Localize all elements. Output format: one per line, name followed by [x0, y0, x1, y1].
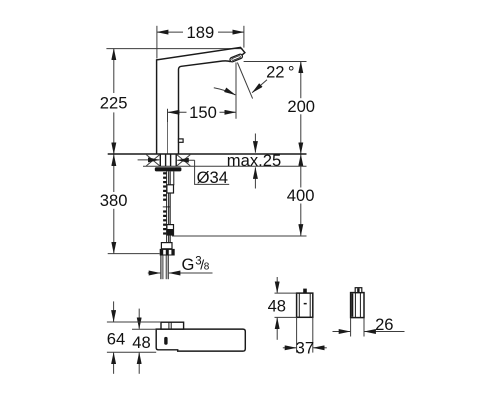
sensor window slot [164, 337, 167, 345]
countertop deck line [108, 153, 307, 155]
svg-text:26: 26 [375, 315, 393, 334]
svg-text:189: 189 [187, 23, 215, 42]
extension lines front view [107, 321, 161, 323]
water stream line 22deg [237, 63, 252, 99]
shank mid break tick [163, 206, 171, 208]
dimension 200 line [300, 62, 302, 99]
dimension G3/8 arrows [148, 272, 160, 274]
clamp piece lower [167, 225, 174, 235]
faucet spout underside [179, 61, 231, 154]
shank body lines [166, 171, 168, 242]
deck hatch right X [177, 155, 191, 166]
svg-text:48: 48 [268, 297, 286, 316]
supply hose [160, 256, 162, 280]
box nub [303, 289, 307, 294]
dimension 64 [113, 301, 115, 321]
svg-text:22 °: 22 ° [266, 63, 294, 82]
shank end fitting [161, 243, 172, 249]
svg-text:max.25: max.25 [227, 151, 281, 170]
dimension 189 line [157, 31, 183, 33]
svg-text:200: 200 [287, 97, 315, 116]
svg-text:37: 37 [296, 338, 314, 357]
dimension 400 line [300, 155, 302, 188]
deck hatch left X [146, 155, 159, 166]
svg-text:380: 380 [100, 191, 128, 210]
angle arc with arrow [214, 88, 236, 95]
dimension 37 [296, 317, 298, 352]
dimension 225 line [113, 49, 115, 93]
svg-text:G: G [182, 255, 195, 274]
centerline of column [167, 122, 169, 154]
dimension diam34 arrows [138, 159, 160, 161]
dimension 150 line [168, 111, 187, 113]
extension line 189 right [243, 26, 245, 48]
front view body [156, 329, 245, 351]
control box front view [297, 293, 313, 317]
extension line 400 bottom [172, 235, 307, 237]
front view top ridge box [161, 322, 184, 329]
svg-text:Ø34: Ø34 [197, 168, 228, 187]
deck bottom line [143, 165, 307, 167]
dimension 26 [350, 318, 352, 337]
svg-text:8: 8 [204, 262, 210, 273]
aerator [229, 54, 243, 63]
side nub [355, 288, 362, 293]
svg-text:225: 225 [100, 93, 128, 112]
aerator inner line [232, 55, 241, 60]
dimension 48 front [138, 309, 140, 329]
clamp piece upper [167, 185, 174, 193]
hex nut [160, 249, 175, 256]
dimension 380 line [113, 155, 115, 193]
extension tick 150 left [167, 109, 169, 122]
threaded shank ticks [163, 172, 166, 234]
extension line tip-top level [106, 48, 242, 50]
sensor cable [173, 171, 175, 185]
control box side view [351, 293, 364, 318]
svg-text:48: 48 [132, 333, 150, 352]
dimension 48 box [276, 277, 278, 293]
extension line 380 bottom [108, 253, 160, 255]
extension line tip level right [244, 61, 307, 63]
leader from 22deg label [252, 80, 267, 93]
faucet body outline [157, 47, 245, 154]
svg-text:64: 64 [107, 329, 125, 348]
extension line aerator vertical [235, 63, 237, 119]
svg-text:400: 400 [287, 186, 315, 205]
mounting flange [155, 167, 182, 171]
dimension max.25 arrows [254, 134, 256, 153]
svg-text:150: 150 [189, 103, 217, 122]
extension line 189 left [156, 26, 158, 59]
shank through deck verticals [159, 154, 161, 166]
box dash [304, 303, 307, 305]
side protrusion on column [179, 139, 184, 142]
leader diam34 [195, 160, 230, 184]
